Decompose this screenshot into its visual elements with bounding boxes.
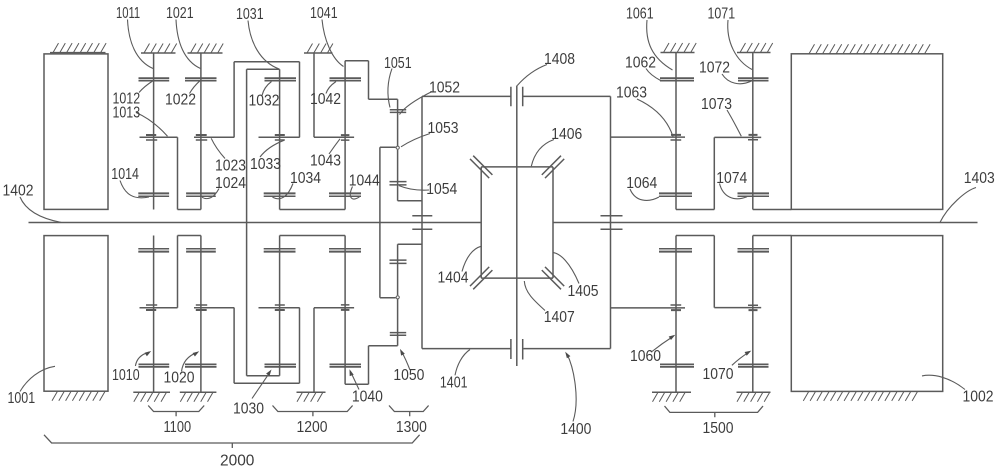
svg-text:1024: 1024 [215, 175, 246, 192]
svg-text:1051: 1051 [384, 55, 412, 72]
svg-text:1403: 1403 [964, 170, 995, 187]
svg-text:1010: 1010 [112, 367, 140, 384]
svg-text:1044: 1044 [349, 172, 380, 189]
svg-text:1405: 1405 [568, 283, 599, 300]
svg-text:1407: 1407 [544, 309, 575, 326]
svg-text:1408: 1408 [544, 51, 575, 68]
svg-text:1050: 1050 [393, 367, 424, 384]
svg-text:1400: 1400 [560, 421, 591, 438]
svg-text:1404: 1404 [438, 269, 469, 286]
svg-text:1022: 1022 [165, 92, 196, 109]
svg-text:1021: 1021 [166, 5, 194, 22]
svg-text:1002: 1002 [963, 389, 994, 406]
svg-text:1063: 1063 [616, 84, 647, 101]
svg-text:1033: 1033 [250, 156, 281, 173]
svg-text:1023: 1023 [215, 157, 246, 174]
svg-text:1054: 1054 [426, 181, 457, 198]
svg-text:1300: 1300 [396, 419, 427, 436]
svg-text:1406: 1406 [551, 126, 582, 143]
svg-text:1020: 1020 [164, 370, 195, 387]
svg-text:1030: 1030 [233, 400, 264, 417]
svg-text:1011: 1011 [116, 5, 140, 22]
svg-text:1001: 1001 [8, 390, 36, 407]
svg-text:1071: 1071 [708, 6, 736, 23]
svg-text:1061: 1061 [626, 6, 654, 23]
svg-text:1060: 1060 [630, 348, 661, 365]
svg-text:1072: 1072 [699, 59, 730, 76]
svg-text:1040: 1040 [352, 388, 383, 405]
svg-text:2000: 2000 [220, 453, 255, 470]
svg-text:1500: 1500 [703, 420, 734, 437]
svg-text:1042: 1042 [310, 91, 341, 108]
svg-text:1074: 1074 [716, 170, 747, 187]
svg-text:1070: 1070 [703, 366, 734, 383]
svg-text:1031: 1031 [236, 6, 264, 23]
svg-text:1100: 1100 [164, 419, 192, 436]
svg-text:1062: 1062 [625, 54, 656, 71]
svg-text:1013: 1013 [113, 105, 141, 122]
svg-text:1041: 1041 [310, 5, 338, 22]
svg-text:1052: 1052 [429, 80, 460, 97]
svg-text:1014: 1014 [111, 166, 139, 183]
svg-text:1064: 1064 [626, 175, 657, 192]
svg-text:1200: 1200 [297, 419, 328, 436]
svg-text:1034: 1034 [290, 170, 321, 187]
svg-text:1073: 1073 [701, 96, 732, 113]
svg-text:1053: 1053 [428, 120, 459, 137]
svg-text:1401: 1401 [440, 375, 468, 392]
svg-text:1402: 1402 [3, 183, 34, 200]
svg-text:1032: 1032 [249, 93, 280, 110]
svg-text:1043: 1043 [310, 152, 341, 169]
